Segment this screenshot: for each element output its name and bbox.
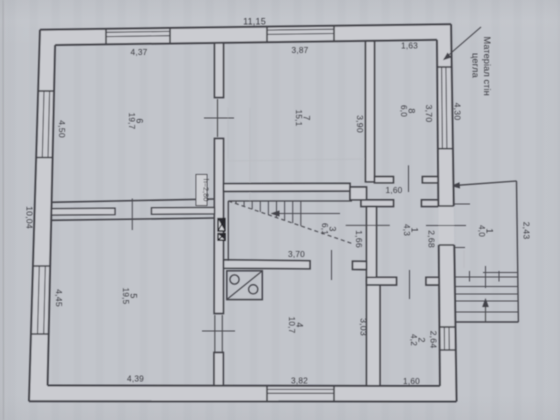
svg-text:Матеріал стін: Матеріал стін	[482, 37, 492, 96]
svg-text:1,66: 1,66	[354, 230, 364, 248]
svg-text:1,60: 1,60	[403, 376, 420, 386]
svg-text:10,04: 10,04	[25, 206, 35, 229]
svg-text:h=2,80: h=2,80	[202, 179, 211, 202]
svg-text:4,45: 4,45	[54, 289, 64, 307]
svg-text:2,43: 2,43	[522, 222, 532, 240]
svg-text:4,3: 4,3	[402, 224, 411, 236]
svg-text:4,39: 4,39	[127, 374, 144, 384]
svg-text:4,37: 4,37	[131, 47, 148, 57]
svg-text:1,63: 1,63	[401, 41, 418, 51]
svg-text:6,1: 6,1	[320, 223, 329, 235]
svg-text:6,0: 6,0	[399, 105, 408, 117]
svg-text:19,7: 19,7	[127, 113, 136, 130]
svg-text:15,1: 15,1	[294, 110, 303, 127]
svg-text:4,2: 4,2	[409, 334, 418, 346]
svg-text:3,90: 3,90	[355, 115, 365, 133]
svg-text:4,0: 4,0	[477, 225, 486, 237]
svg-text:19,5: 19,5	[121, 288, 130, 305]
svg-text:3,03: 3,03	[359, 318, 369, 336]
svg-text:3,87: 3,87	[292, 45, 309, 55]
svg-text:цегла: цегла	[470, 53, 480, 79]
svg-text:3,82: 3,82	[291, 376, 308, 386]
svg-text:2,68: 2,68	[427, 230, 437, 248]
svg-text:4,30: 4,30	[453, 103, 463, 121]
svg-text:11,15: 11,15	[243, 17, 266, 27]
svg-text:10,7: 10,7	[287, 317, 296, 334]
svg-text:3,70: 3,70	[424, 105, 434, 123]
svg-text:3,70: 3,70	[288, 249, 305, 259]
svg-text:1,60: 1,60	[386, 185, 403, 195]
svg-text:2,64: 2,64	[429, 331, 439, 349]
svg-text:4,50: 4,50	[57, 120, 67, 138]
